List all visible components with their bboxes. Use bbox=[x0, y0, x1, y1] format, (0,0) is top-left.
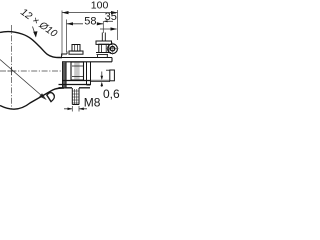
svg-text:M8: M8 bbox=[84, 96, 101, 110]
svg-text:100: 100 bbox=[91, 0, 109, 12]
circle element bbox=[108, 44, 118, 54]
left wall of lug bbox=[63, 62, 66, 88]
dim M8 bbox=[72, 106, 79, 112]
threaded stud bbox=[72, 88, 79, 105]
center cross bbox=[8, 67, 16, 75]
svg-text:58: 58 bbox=[84, 16, 96, 28]
svg-text:0,6: 0,6 bbox=[103, 87, 120, 101]
bolt1 head bbox=[72, 45, 80, 52]
bottom flange plates bbox=[59, 81, 92, 88]
bolt2 washer bbox=[96, 41, 112, 44]
bolt1 nut box bbox=[71, 62, 84, 80]
dim 58 bbox=[66, 20, 68, 53]
bolt1 washer bbox=[69, 51, 83, 54]
band outline top curve bbox=[0, 32, 62, 58]
bolt1 pedestal bbox=[62, 52, 68, 58]
centerline horizontal bbox=[0, 70, 62, 72]
top rail double line bbox=[62, 58, 112, 62]
dim 35 bbox=[102, 21, 104, 33]
thin band to the right bbox=[91, 80, 110, 81]
band outline bottom curve bbox=[0, 88, 64, 109]
leader 12 x O10 bbox=[33, 27, 36, 37]
band end tab bbox=[110, 70, 115, 81]
right wall bbox=[87, 62, 91, 85]
bolt1 shank lines bbox=[75, 62, 79, 80]
svg-text:35: 35 bbox=[105, 11, 117, 23]
diameter D leader line bbox=[0, 60, 46, 100]
dim 100 bbox=[62, 10, 118, 56]
bolt2 shank bbox=[102, 33, 105, 42]
bolt2 hex body bbox=[99, 44, 109, 52]
dim 0,6 bbox=[101, 72, 103, 88]
centerline vertical bbox=[11, 25, 13, 109]
